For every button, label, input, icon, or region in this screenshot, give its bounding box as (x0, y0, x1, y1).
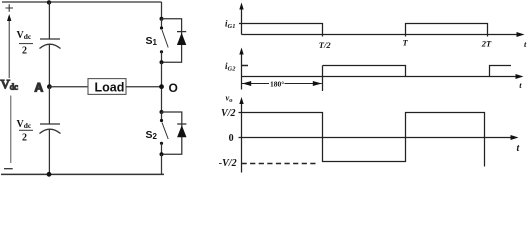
load box (88, 79, 126, 95)
node junction bottom rail to capacitor leg (47, 172, 52, 177)
svg-text:2: 2 (22, 46, 27, 57)
svg-text:T: T (403, 37, 409, 47)
svg-text:S1: S1 (146, 35, 158, 47)
label Vdc/2 lower (17, 119, 32, 144)
node junction top rail to capacitor leg (47, 0, 51, 4)
waveform iG1 axis vertical (241, 8, 243, 35)
tick iG2 high level (242, 65, 249, 67)
dashed line -V/2 (242, 163, 319, 165)
diode D1 (177, 31, 186, 33)
svg-text:180°: 180° (270, 80, 284, 89)
svg-text:Vdc: Vdc (17, 30, 32, 41)
diode D1 branch wires (162, 19, 182, 63)
wire S2 to bottom rail (161, 154, 163, 174)
svg-text:iG2: iG2 (225, 61, 236, 73)
diode D2 branch wires (162, 112, 182, 154)
dimension arrow 180deg (242, 83, 269, 85)
svg-text:t: t (517, 143, 521, 154)
diode D2 (177, 123, 186, 125)
svg-text:vo: vo (226, 93, 234, 105)
Vdc measurement arrow (8, 19, 10, 78)
waveform iG2 pulse2 (490, 66, 512, 77)
svg-text:V/2: V/2 (221, 108, 235, 119)
svg-text:Vdc: Vdc (17, 119, 32, 130)
svg-text:A: A (35, 80, 44, 94)
wire node A to load (49, 86, 88, 88)
svg-text:t: t (524, 39, 527, 49)
waveform iG2 time axis (242, 76, 518, 78)
node A (47, 84, 52, 89)
svg-text:Load: Load (95, 80, 125, 94)
wire load to node O (126, 86, 162, 88)
waveform iG1 time axis (242, 34, 519, 36)
wire bottom rail (1, 173, 164, 175)
svg-text:t: t (519, 80, 522, 90)
svg-text:2: 2 (22, 133, 27, 144)
svg-text:-V/2: -V/2 (219, 158, 237, 169)
node S2 top junction (160, 110, 164, 114)
switch S1 (161, 19, 163, 28)
annotation line lower (10, 96, 12, 164)
waveform vo zero axis (239, 137, 513, 139)
node S2 bottom junction (160, 152, 164, 156)
waveform iG2 pulse1 (323, 66, 406, 92)
minus terminal (4, 168, 13, 170)
node O (159, 84, 164, 89)
wire top rail (2, 1, 162, 3)
waveform vo square wave (242, 113, 485, 167)
capacitor C2 (48, 87, 50, 124)
capacitor C1 (48, 2, 50, 39)
svg-text:2T: 2T (481, 39, 492, 49)
tick V/2 (239, 112, 242, 114)
plus terminal (6, 4, 14, 11)
svg-text:T/2: T/2 (319, 40, 332, 50)
switch S2 (161, 112, 163, 120)
svg-text:Vdc: Vdc (1, 76, 19, 91)
svg-text:S2: S2 (146, 129, 158, 141)
node S1 top junction (160, 17, 164, 21)
label Vdc/2 upper (17, 30, 32, 57)
wire S1 to node O (161, 62, 163, 112)
svg-text:O: O (169, 81, 178, 95)
node S1 bottom junction (160, 60, 164, 64)
svg-text:iG1: iG1 (225, 19, 235, 31)
waveform iG2 axis vertical (241, 53, 243, 90)
waveform iG1 pulse1 (239, 24, 323, 37)
svg-text:0: 0 (229, 133, 234, 144)
waveform iG1 pulse2 (406, 24, 488, 37)
waveform vo axis vertical (241, 103, 243, 173)
wire right leg top (161, 2, 163, 19)
